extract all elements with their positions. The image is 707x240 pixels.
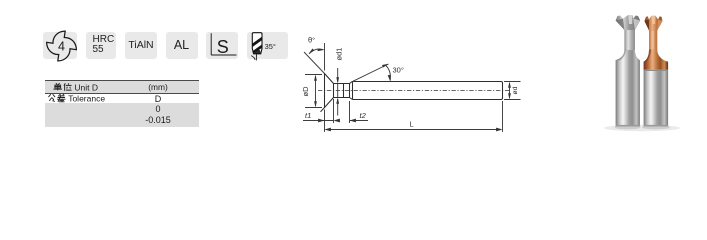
svg-text:øD: øD bbox=[301, 86, 310, 97]
svg-text:ød: ød bbox=[512, 86, 519, 94]
svg-text:L: L bbox=[410, 120, 414, 129]
svg-text:S: S bbox=[217, 37, 229, 57]
svg-text:θ°: θ° bbox=[308, 36, 315, 45]
svg-text:t2: t2 bbox=[360, 111, 367, 120]
svg-text:4: 4 bbox=[58, 39, 65, 53]
svg-text:ød1: ød1 bbox=[335, 48, 344, 61]
svg-text:t1: t1 bbox=[305, 111, 311, 120]
svg-text:30°: 30° bbox=[393, 66, 404, 75]
svg-text:35°: 35° bbox=[265, 42, 276, 51]
